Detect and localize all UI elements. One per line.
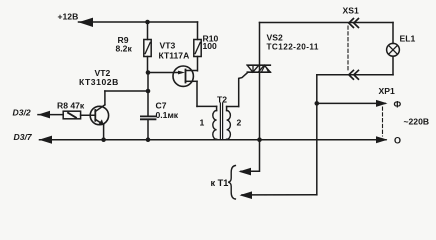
svg-text:к Т1: к Т1	[211, 178, 229, 188]
wire VT3 base1 to T2 winding1	[197, 105, 217, 107]
svg-text:XS1: XS1	[343, 6, 359, 16]
arrow XP1 phase	[376, 100, 388, 107]
wire to T1 lower	[242, 194, 317, 196]
winding 1	[216, 106, 218, 110]
VS2 gate	[239, 72, 248, 106]
transistor VT2	[81, 91, 109, 140]
resistor R10	[194, 40, 201, 71]
arrow D3/2	[38, 111, 50, 119]
connector XS1 top contact	[349, 19, 359, 28]
resistor R9	[144, 22, 151, 73]
node C7 bottom	[146, 137, 151, 142]
connector XP1 dashed link	[382, 107, 384, 136]
arrow +12V	[79, 18, 94, 27]
arrow D3/7	[39, 136, 52, 144]
wire VS2 top to lamp	[260, 22, 394, 24]
svg-text:100: 100	[203, 41, 218, 51]
wire lamp return	[317, 74, 393, 76]
winding 2	[226, 107, 228, 111]
wire to T1 upper	[241, 140, 260, 172]
wire D3/7 bottom rail	[40, 139, 387, 141]
wire rail drop to R10	[197, 22, 199, 40]
svg-text:КТ117А: КТ117А	[159, 51, 190, 61]
svg-text:VT3: VT3	[160, 41, 176, 51]
arrow XP1 neutral	[376, 136, 388, 143]
connector XS1 dashed link	[347, 26, 349, 71]
resistor R8	[38, 111, 81, 119]
svg-text:D3/2: D3/2	[13, 108, 31, 118]
svg-text:+12В: +12В	[58, 12, 79, 22]
svg-text:Ф: Ф	[394, 100, 402, 110]
connector XS1 bottom contact	[349, 70, 359, 79]
svg-text:КТ3102В: КТ3102В	[79, 77, 119, 87]
node VT3 emitter	[146, 70, 151, 75]
thyristor VS2 triac	[239, 23, 271, 140]
lamp EL1	[387, 23, 400, 75]
arrow to T1 lower	[240, 191, 253, 199]
core	[219, 103, 221, 140]
node XP1 phase junction	[315, 101, 320, 106]
svg-text:XP1: XP1	[379, 86, 395, 96]
svg-text:D3/7: D3/7	[14, 132, 33, 142]
node VT2 emitter	[101, 137, 106, 142]
svg-text:C7: C7	[156, 101, 167, 111]
wire node column R9 bottom to C7	[147, 73, 149, 117]
winding 2 top lead	[227, 106, 239, 108]
svg-text:0.1мк: 0.1мк	[156, 110, 179, 120]
svg-text:Т2: Т2	[217, 95, 227, 105]
transistor VT3 unijunction	[148, 66, 197, 106]
svg-text:~220В: ~220В	[404, 117, 430, 127]
node T2-VS2 junction	[257, 137, 262, 142]
capacitor C7	[141, 116, 156, 139]
svg-text:О: О	[394, 136, 401, 146]
wire phase column	[316, 75, 318, 195]
wire to XP1 phase	[317, 102, 385, 104]
transformer T2	[213, 103, 239, 140]
wire VT2 collector to node	[105, 90, 148, 92]
node VT2 collector	[146, 89, 151, 94]
brace k T1	[228, 166, 235, 200]
arrow to T1 upper	[239, 168, 252, 176]
svg-text:EL1: EL1	[400, 34, 416, 44]
svg-text:VS2: VS2	[267, 33, 283, 43]
svg-text:8.2к: 8.2к	[116, 44, 133, 54]
svg-text:R8 47к: R8 47к	[57, 101, 85, 111]
node rail-R9	[145, 20, 150, 25]
svg-text:1: 1	[200, 118, 205, 128]
svg-text:2: 2	[237, 118, 242, 128]
svg-text:ТС122-20-11: ТС122-20-11	[267, 43, 319, 52]
wire +12V rail	[79, 21, 198, 23]
